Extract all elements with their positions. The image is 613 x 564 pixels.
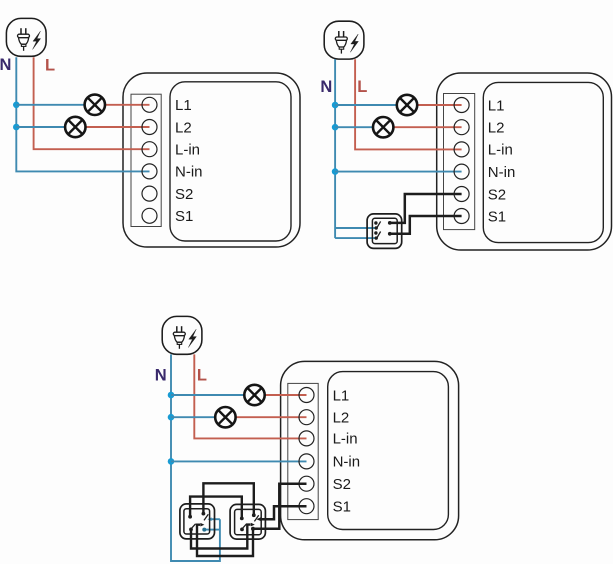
wire N vertical drop to bottom and to switch SW2 common bbox=[171, 354, 220, 561]
svg-text:L-in: L-in bbox=[488, 142, 513, 159]
power source PS1 bbox=[6, 18, 46, 56]
wire N to lamp E4 bbox=[335, 126, 373, 128]
terminal S1 (U2 pin) bbox=[454, 209, 469, 224]
svg-text:L: L bbox=[357, 78, 367, 96]
wire lamp E2 to terminal L2 bbox=[85, 126, 149, 128]
svg-text:N-in: N-in bbox=[333, 454, 361, 471]
svg-text:N: N bbox=[155, 367, 167, 385]
wire traveller T2 (SW2 upper-left to SW3 upper-left) bbox=[190, 497, 242, 519]
wire lamp E6 to terminal L2 bbox=[235, 416, 306, 418]
node SW2 upper-left contact bbox=[188, 515, 192, 519]
svg-text:L: L bbox=[197, 367, 207, 385]
svg-text:S2: S2 bbox=[175, 186, 193, 203]
wire N to lamp E1 bbox=[16, 104, 85, 106]
wire traveller T1 (SW2 upper-right to SW3 upper-right) bbox=[203, 483, 253, 515]
node junction on N (row 4) bbox=[332, 168, 339, 175]
terminal L1 (U3 pin) bbox=[299, 388, 314, 403]
terminal L1 (U2 pin) bbox=[454, 98, 469, 113]
SW3 upper lever bbox=[254, 515, 258, 521]
arrowhead on S1 wire bbox=[256, 517, 260, 521]
wire lamp E3 to terminal L1 bbox=[417, 104, 462, 106]
SW3 lower-left contact bbox=[240, 528, 244, 532]
wire L vertical drop bbox=[34, 57, 150, 149]
terminal L-in (U2 pin) bbox=[454, 142, 469, 157]
terminal N-in (U1 pin) bbox=[142, 164, 157, 179]
wire N to terminal N-in bbox=[335, 171, 462, 173]
svg-text:L2: L2 bbox=[333, 410, 350, 427]
switch SW2 box bbox=[180, 504, 215, 539]
node junction on N (row 2) bbox=[332, 124, 339, 131]
switch SW1 gang 2 contacts bbox=[374, 231, 392, 240]
terminal S2 (U3 pin) bbox=[299, 476, 314, 491]
terminal L2 (U2 pin) bbox=[454, 120, 469, 135]
power source PS2 bbox=[324, 21, 364, 59]
SW3 lower lever bbox=[241, 524, 247, 530]
wire N to terminal N-in bbox=[171, 460, 307, 462]
node junction on N (row 1) bbox=[332, 102, 339, 109]
terminal L-in (U3 pin) bbox=[299, 431, 314, 446]
terminal S1 (U3 pin) bbox=[299, 499, 314, 514]
terminal L1 (U1 pin) bbox=[142, 97, 157, 112]
SW2 upper lever bbox=[204, 514, 208, 520]
arrowhead on N branch bbox=[207, 517, 211, 521]
wire N branch to SW2 lower-right contact bbox=[205, 529, 220, 531]
wire N vertical drop bbox=[16, 57, 149, 171]
svg-text:L-in: L-in bbox=[175, 142, 200, 159]
SW2 lower lever bbox=[190, 524, 196, 530]
switch SW1 gang 1 contacts bbox=[374, 221, 392, 230]
svg-text:S1: S1 bbox=[333, 499, 351, 516]
relay module U2 body bbox=[437, 73, 612, 250]
wire lamp E4 to terminal L2 bbox=[393, 126, 462, 128]
wire terminal S1 arrow into SW3 upper mech bbox=[261, 506, 307, 519]
node SW2 lower-right contact (neutral) bbox=[202, 528, 206, 532]
svg-text:L2: L2 bbox=[175, 119, 192, 136]
wire N vertical drop bbox=[334, 59, 336, 238]
node junction on N (row 4) bbox=[168, 458, 175, 465]
terminal L2 (U1 pin) bbox=[142, 120, 157, 135]
terminal N-in (U3 pin) bbox=[299, 454, 314, 469]
terminal S2 (U2 pin) bbox=[454, 187, 469, 202]
arrowhead into SW3 mech bbox=[251, 523, 255, 527]
relay module U1 body bbox=[123, 73, 300, 247]
svg-text:N-in: N-in bbox=[488, 164, 516, 181]
switch SW3 box bbox=[230, 504, 265, 539]
svg-text:N: N bbox=[320, 78, 332, 96]
wire SW1 gang2 to terminal S1 bbox=[390, 216, 462, 234]
node SW2 upper-right contact bbox=[202, 512, 206, 516]
svg-text:L2: L2 bbox=[488, 120, 505, 137]
wire N branch arrow into SW2 upper mech bbox=[210, 518, 220, 520]
wire N to lamp E3 bbox=[335, 104, 397, 106]
node SW3 lower-right contact bbox=[251, 527, 255, 531]
terminal N-in (U2 pin) bbox=[454, 164, 469, 179]
wire N to lamp E6 bbox=[171, 416, 216, 418]
wire SW3 lower-right to SW2 mech (bottom run 2) bbox=[197, 525, 253, 556]
node SW3 upper-left contact bbox=[240, 517, 244, 521]
svg-text:L1: L1 bbox=[333, 387, 350, 404]
wire lamp E1 to terminal L1 bbox=[105, 104, 150, 106]
lamp E2 bbox=[65, 117, 85, 137]
svg-text:S1: S1 bbox=[175, 208, 193, 225]
SW2 lower-left contact bbox=[189, 528, 193, 532]
wire L vertical drop bbox=[355, 59, 462, 149]
wire L vertical drop bbox=[194, 354, 306, 438]
node junction on N (row 1) bbox=[168, 392, 175, 399]
svg-text:L1: L1 bbox=[175, 97, 192, 114]
lamp E4 bbox=[373, 117, 393, 137]
wire SW1 gang1 to terminal S2 bbox=[390, 194, 462, 223]
svg-text:L-in: L-in bbox=[333, 431, 358, 448]
svg-text:L: L bbox=[45, 57, 55, 75]
svg-text:S2: S2 bbox=[333, 476, 351, 493]
relay module U3 body bbox=[281, 361, 459, 539]
svg-text:S2: S2 bbox=[488, 186, 506, 203]
wire SW2 lower-left to SW3 mech (bottom run 1) bbox=[191, 525, 251, 549]
node SW3 upper-right contact bbox=[252, 513, 256, 517]
node junction on N (row 2) bbox=[13, 124, 20, 131]
arrowhead into SW2 mech bbox=[200, 523, 204, 527]
wire N to lamp E2 bbox=[16, 126, 65, 128]
wire N to lamp E5 bbox=[171, 394, 245, 396]
switch SW1 box bbox=[367, 214, 402, 249]
terminal S2 (U1 pin) bbox=[142, 186, 157, 201]
lamp E6 bbox=[215, 407, 235, 427]
svg-text:L1: L1 bbox=[488, 97, 505, 114]
wire N branch to switch SW1 pole b bbox=[335, 237, 376, 239]
wire terminal S2 to SW3 lower-right contact bbox=[253, 484, 307, 529]
svg-text:N-in: N-in bbox=[175, 164, 203, 181]
terminal L-in (U1 pin) bbox=[142, 142, 157, 157]
svg-text:S1: S1 bbox=[488, 208, 506, 225]
lamp E5 bbox=[244, 385, 264, 405]
svg-text:N: N bbox=[0, 56, 11, 74]
wire N branch to switch SW1 pole a bbox=[335, 227, 376, 229]
lamp E1 bbox=[85, 95, 105, 115]
terminal L2 (U3 pin) bbox=[299, 410, 314, 425]
lamp E3 bbox=[397, 95, 417, 115]
wire lamp E5 to terminal L1 bbox=[264, 394, 306, 396]
node junction on N (row 2) bbox=[168, 414, 175, 421]
power source PS3 bbox=[162, 316, 202, 354]
terminal S1 (U1 pin) bbox=[142, 208, 157, 223]
node junction on N (row 1) bbox=[13, 102, 20, 109]
